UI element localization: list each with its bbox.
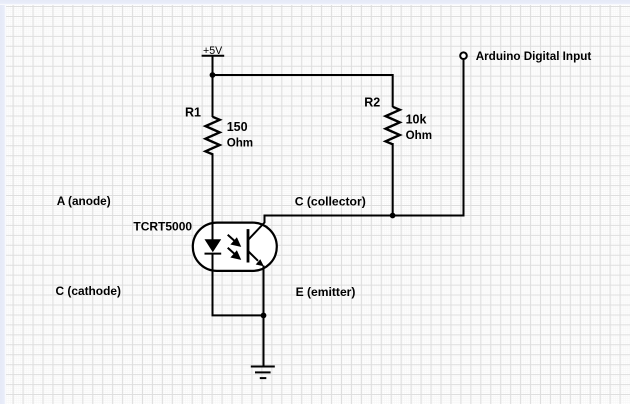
svg-text:C (collector): C (collector)	[295, 194, 366, 208]
svg-text:E (emitter): E (emitter)	[296, 285, 356, 299]
svg-text:Ohm: Ohm	[406, 129, 432, 142]
svg-text:Ohm: Ohm	[227, 136, 253, 149]
svg-text:+5V: +5V	[203, 45, 223, 57]
svg-text:R2: R2	[364, 95, 380, 109]
svg-text:TCRT5000: TCRT5000	[133, 219, 192, 233]
svg-text:Arduino Digital Input: Arduino Digital Input	[476, 50, 592, 63]
svg-text:A (anode): A (anode)	[57, 194, 111, 208]
svg-text:150: 150	[227, 120, 248, 134]
svg-text:C (cathode): C (cathode)	[56, 284, 121, 298]
svg-text:10k: 10k	[406, 112, 427, 126]
svg-text:R1: R1	[185, 106, 201, 120]
